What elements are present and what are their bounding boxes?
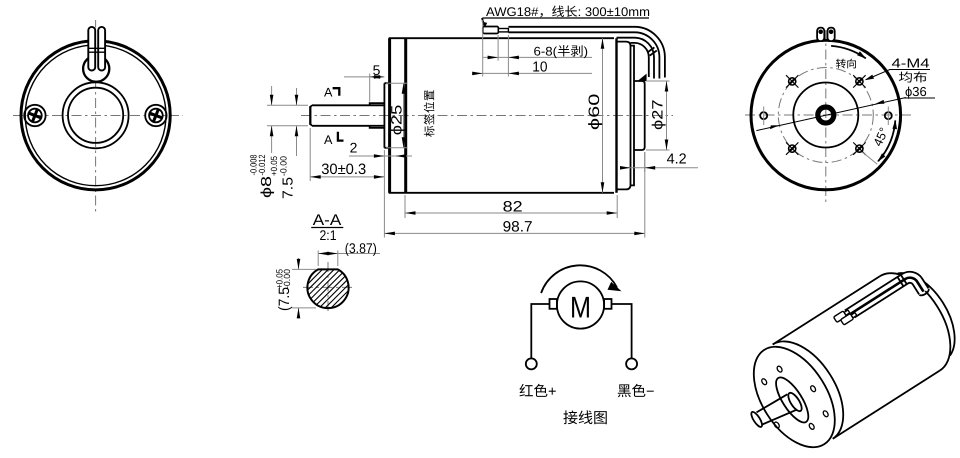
bolt circle dashed	[778, 68, 873, 163]
AWG leader	[482, 18, 484, 25]
svg-text:AWG18#，线长: 300±10mm: AWG18#，线长: 300±10mm	[486, 5, 650, 19]
svg-text:(7.5: (7.5	[276, 287, 293, 311]
body front face line	[388, 38, 391, 193]
iso wire connector tips	[833, 306, 857, 327]
right terminal circle	[626, 358, 637, 369]
svg-text:黑色−: 黑色−	[617, 383, 654, 400]
motor outer circle	[21, 41, 170, 190]
iso shaft	[757, 394, 798, 426]
rear terminal tab right	[828, 28, 835, 41]
svg-text:标签位置: 标签位置	[423, 89, 436, 137]
iso seam arc	[773, 327, 860, 439]
svg-text:10: 10	[532, 60, 547, 76]
phi36 leader line	[756, 98, 906, 131]
45 deg arc	[878, 121, 895, 162]
svg-text:ϕ8: ϕ8	[259, 176, 275, 198]
wire bend arcs	[617, 27, 665, 79]
dim 3.87	[317, 251, 319, 267]
right tab	[604, 299, 611, 309]
screw M4 bottom-left	[786, 142, 798, 154]
motor lip circle	[25, 45, 166, 186]
dim 82	[404, 195, 406, 218]
left tab	[550, 299, 557, 309]
screw M4 bottom-right	[853, 142, 865, 154]
section centerlines	[303, 286, 353, 288]
body rear edge line	[615, 38, 617, 193]
terminal boss	[83, 56, 109, 82]
svg-text:-0.00: -0.00	[282, 269, 292, 289]
axis centerline	[301, 115, 673, 117]
iso wire sleeve ticks	[897, 274, 907, 286]
centerline horizontal front view	[13, 115, 183, 117]
wire stripped tip	[483, 27, 499, 34]
svg-text:接线图: 接线图	[563, 410, 608, 427]
svg-text:98.7: 98.7	[503, 219, 533, 236]
iso front face	[737, 333, 851, 458]
svg-text:4.2: 4.2	[667, 152, 687, 168]
svg-text:82: 82	[503, 198, 523, 215]
center hole inner circle	[68, 88, 123, 143]
svg-text:M: M	[570, 292, 591, 325]
wire separator ticks	[647, 47, 657, 55]
terminal tab right	[98, 27, 105, 71]
screw M4 top-left	[786, 75, 798, 87]
iso wire end cap	[919, 289, 930, 297]
iso front disc	[770, 373, 814, 427]
motor body rectangle	[390, 38, 614, 193]
side hole left	[760, 112, 767, 119]
right wire	[612, 304, 632, 358]
dim 98.7	[644, 152, 646, 238]
dim phi8 shaft	[267, 104, 308, 106]
center hole outer circle	[63, 82, 129, 148]
svg-text:ϕ27: ϕ27	[650, 99, 667, 130]
shaft step section	[370, 103, 385, 128]
screw left	[24, 105, 45, 126]
rear inner circle	[793, 83, 858, 148]
wire neck	[498, 29, 508, 32]
centerline horizontal rear	[745, 114, 911, 116]
motor circle	[557, 281, 604, 328]
svg-text:ϕ36: ϕ36	[905, 84, 927, 99]
dim phi25	[386, 82, 408, 84]
dim 7.5 shaft	[296, 88, 298, 105]
can crimp edge line	[404, 38, 407, 193]
centerline vertical rear	[825, 30, 827, 203]
svg-text:4-M4: 4-M4	[892, 56, 930, 71]
screw M4 top-right	[853, 75, 865, 87]
svg-text:-0.00: -0.00	[279, 156, 289, 176]
terminal tab left	[88, 27, 95, 71]
iso hub	[786, 391, 804, 413]
svg-text:均布: 均布	[899, 71, 928, 85]
iso rear rim arc	[880, 259, 960, 371]
svg-text:2:1: 2:1	[320, 227, 337, 243]
terminal backing	[89, 28, 105, 70]
svg-text:A: A	[324, 133, 333, 147]
svg-text:ϕ25: ϕ25	[389, 105, 406, 136]
dim 7.5 section	[292, 268, 316, 270]
svg-text:红色+: 红色+	[519, 383, 556, 400]
svg-text:A: A	[324, 86, 333, 100]
side hole right	[885, 112, 892, 119]
dim 5	[369, 74, 371, 102]
dim 6-8	[482, 20, 484, 77]
rear outer circle	[751, 40, 901, 190]
dim 4.2	[644, 152, 646, 172]
left wire	[531, 304, 549, 358]
svg-text:2: 2	[350, 139, 358, 155]
svg-text:ϕ60: ϕ60	[586, 94, 603, 131]
svg-text:+0.05: +0.05	[269, 156, 279, 176]
phi27 boss	[634, 81, 645, 150]
dim 2	[349, 155, 412, 157]
svg-text:转向: 转向	[836, 59, 858, 71]
left terminal circle	[526, 358, 537, 369]
svg-text:30±0.3: 30±0.3	[321, 161, 366, 178]
svg-text:5: 5	[373, 62, 381, 78]
terminal crossbar lines	[88, 47, 105, 49]
dim 30±0.3	[309, 128, 311, 181]
shaft	[310, 105, 384, 126]
dim phi27	[646, 80, 670, 82]
svg-text:6-8(半剥): 6-8(半剥)	[534, 45, 589, 59]
4-M4 leader	[867, 70, 891, 80]
rotation arc arrow	[541, 265, 617, 293]
iso rear cap arc	[898, 261, 960, 355]
rear terminal tab left	[817, 28, 824, 41]
svg-text:(3.87): (3.87)	[345, 240, 377, 256]
dim phi60	[602, 38, 604, 193]
iso bolt holes	[761, 365, 829, 430]
wire body lines	[508, 27, 634, 33]
svg-text:7.5: 7.5	[281, 177, 297, 199]
rear cap	[617, 42, 631, 190]
dim 10	[507, 35, 509, 77]
screw right	[145, 105, 166, 126]
rotation direction arc	[831, 46, 866, 59]
center hub ring	[818, 107, 834, 123]
iso wire B outline	[851, 275, 923, 331]
centerline vertical front view	[95, 20, 97, 212]
iso body silhouette	[773, 276, 940, 439]
iso wires band fill	[845, 266, 930, 333]
wire end terminal blob	[637, 74, 646, 82]
45 deg radial ext	[863, 153, 877, 165]
rear plate line	[631, 46, 635, 186]
svg-text:-0.012: -0.012	[257, 155, 267, 176]
collar front face	[384, 83, 389, 148]
iso wire A outline	[845, 266, 929, 333]
